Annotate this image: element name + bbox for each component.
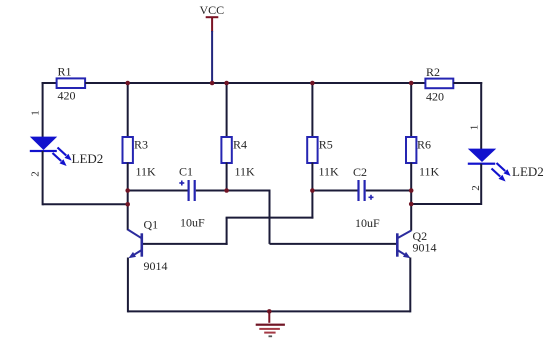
wire ground rail — [128, 310, 410, 312]
junction node VCC — [210, 81, 215, 86]
resistor R5 — [307, 137, 339, 179]
wire Q1 emitter vertical — [127, 258, 129, 313]
wire R3 top — [127, 83, 129, 138]
junction node R6 top — [409, 81, 414, 86]
LED D2 (right) — [468, 149, 511, 182]
svg-text:R3: R3 — [134, 138, 148, 152]
wire C2 right — [366, 190, 412, 192]
wire R5 bottom — [311, 163, 313, 191]
junction node R4 top — [224, 81, 229, 86]
svg-text:11K: 11K — [136, 165, 157, 179]
wire Q1 base path up to R5 node — [311, 191, 313, 219]
wire Q1 base horizontal — [143, 243, 228, 245]
svg-text:11K: 11K — [319, 165, 340, 179]
wire R5 top — [311, 83, 313, 138]
transistor Q1 — [128, 218, 168, 274]
svg-text:VCC: VCC — [200, 3, 225, 17]
svg-text:R6: R6 — [417, 138, 431, 152]
svg-text:C2: C2 — [353, 165, 367, 179]
svg-text:1: 1 — [469, 125, 481, 131]
resistor R2 — [425, 65, 453, 104]
svg-text:9014: 9014 — [144, 259, 168, 273]
svg-text:420: 420 — [426, 90, 444, 104]
svg-text:11K: 11K — [419, 165, 440, 179]
svg-text:10uF: 10uF — [355, 216, 380, 230]
junction node R4 bottom — [224, 188, 229, 193]
wire R3 bottom down to Q1 collector — [127, 163, 129, 231]
wire coupling right to Q2 base — [270, 243, 397, 245]
svg-text:11K: 11K — [235, 165, 256, 179]
wire R4 top — [226, 83, 228, 138]
resistor R3 — [123, 137, 157, 179]
wire R6 top — [410, 83, 412, 138]
wire top rail right segment — [453, 82, 482, 84]
svg-text:LED2: LED2 — [512, 164, 544, 179]
wire R4 bottom — [226, 163, 228, 191]
wire LED2 anode vertical (right) — [480, 82, 482, 150]
junction node C1 left — [125, 188, 130, 193]
wire LED1 cathode vertical — [42, 151, 44, 205]
wire LED1 anode vertical — [42, 82, 44, 138]
svg-text:Q1: Q1 — [144, 218, 159, 232]
junction node R5 top — [310, 81, 315, 86]
resistor R4 — [221, 137, 255, 179]
svg-text:1: 1 — [30, 110, 42, 116]
svg-text:10uF: 10uF — [180, 216, 205, 230]
junction node R5 bottom — [310, 188, 315, 193]
wire C1 left — [128, 190, 188, 192]
transistor Q2 — [396, 229, 437, 258]
junction node LED2 bottom — [409, 202, 414, 207]
svg-text:C1: C1 — [179, 165, 193, 179]
wire Q1 base path up — [226, 218, 228, 245]
power symbol VCC — [200, 3, 225, 32]
wire Q2 emitter vertical — [409, 258, 411, 313]
junction node LED1 bottom — [125, 202, 130, 207]
LED D1 (left) — [30, 137, 72, 166]
svg-text:R2: R2 — [426, 65, 440, 79]
svg-text:420: 420 — [58, 89, 76, 103]
wire coupling down — [269, 191, 271, 244]
junction node C2 right — [409, 188, 414, 193]
resistor R6 — [406, 137, 440, 179]
capacitor C2 — [353, 165, 380, 230]
wire top rail left segment — [42, 82, 58, 84]
junction node ground — [267, 309, 272, 314]
svg-text:R1: R1 — [58, 65, 72, 79]
wire Q1 base path right — [226, 217, 314, 219]
wire LED1 bottom horizontal to node — [43, 203, 128, 205]
wire C2 left — [312, 190, 357, 192]
ground — [256, 311, 285, 337]
wire VCC stub down to rail — [211, 31, 213, 83]
wire R6 bottom down to Q2 collector — [410, 163, 412, 231]
wire LED2 cathode vertical — [480, 164, 482, 205]
resistor R1 — [57, 65, 86, 103]
svg-text:R4: R4 — [233, 138, 247, 152]
svg-text:2: 2 — [30, 171, 42, 177]
svg-text:9014: 9014 — [413, 241, 437, 255]
junction node R3 top — [125, 81, 130, 86]
wire C1 right to coupling corner — [196, 190, 271, 192]
capacitor C1 — [179, 165, 205, 230]
svg-text:R5: R5 — [319, 138, 333, 152]
svg-text:LED2: LED2 — [72, 151, 104, 166]
wire top rail middle segment — [85, 82, 425, 84]
wire LED2 bottom horizontal to node — [411, 203, 481, 205]
